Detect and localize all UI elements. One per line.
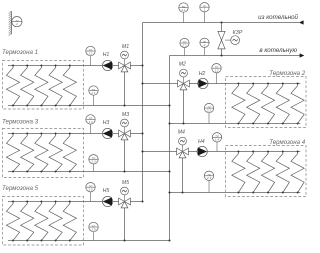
wire: sensor stem — [204, 12, 206, 23]
svg-text:Н1: Н1 — [103, 52, 110, 58]
wire: zone 2 return rail — [170, 123, 301, 125]
svg-text:2: 2 — [203, 43, 206, 47]
wire: sensor stem — [208, 113, 210, 124]
radiator 3.5 — [63, 133, 76, 173]
svg-text:М3: М3 — [122, 112, 129, 118]
radiator 4.3 — [261, 151, 274, 194]
svg-text:Термозона 3: Термозона 3 — [2, 118, 39, 125]
node: supply trunk junction zone 2 — [141, 82, 143, 84]
svg-text:Н3: Н3 — [103, 120, 110, 126]
radiator 5.3 — [35, 201, 48, 242]
valve М4 (3-way) — [177, 148, 189, 158]
valve М2 (3-way) — [178, 80, 190, 90]
radiator 1.1 — [6, 65, 19, 107]
wire: zone 4 supply from trunk — [143, 151, 177, 153]
sensor TE supply zone 5 — [86, 183, 95, 192]
wire: sensor stem — [90, 192, 92, 202]
svg-text:1.1: 1.1 — [88, 51, 93, 55]
node: return trunk junction zone 5 — [168, 239, 170, 241]
actuator М2 — [180, 69, 188, 77]
pump Н2 — [198, 78, 208, 88]
wire: zone 2 supply from trunk — [143, 83, 178, 85]
wire: zone 4 supply rail — [188, 151, 300, 153]
actuator М3 — [121, 119, 129, 127]
svg-text:Н4: Н4 — [198, 139, 205, 145]
svg-text:1.2: 1.2 — [214, 69, 219, 73]
enclosure Термозона 3 (dashed) — [3, 129, 84, 178]
wire: main supply line (из котельной) — [143, 22, 300, 24]
svg-text:2.5: 2.5 — [90, 227, 96, 231]
radiator 4.2 — [247, 151, 260, 194]
wire: actuator stem — [182, 145, 184, 152]
svg-text:2.2: 2.2 — [206, 109, 212, 113]
svg-text:2.4: 2.4 — [206, 176, 212, 180]
sensor TE supply zone 4 — [212, 133, 221, 142]
radiator 1.4 — [49, 65, 62, 107]
gauge PI on return — [200, 38, 209, 47]
actuator KZR — [231, 36, 240, 45]
radiator 1.5 — [63, 65, 76, 107]
radiator 1.3 — [35, 65, 48, 107]
radiator 5.5 — [63, 201, 76, 242]
svg-text:Н2: Н2 — [199, 71, 206, 77]
sensor TE return zone 4 — [204, 171, 213, 180]
sensor TE on return — [180, 38, 189, 47]
node: bypass junction М3 — [123, 170, 125, 172]
radiator 2.3 — [261, 83, 274, 125]
svg-text:Термозона 4: Термозона 4 — [269, 139, 306, 146]
node: return trunk junction zone 2 — [168, 122, 170, 124]
radiator 3.2 — [21, 133, 34, 173]
wire: sensor stem — [93, 95, 95, 105]
radiator 5.4 — [49, 201, 62, 242]
sensor TE supply zone 1 — [86, 46, 95, 55]
wire: sensor stem — [93, 232, 95, 241]
actuator М4 — [179, 137, 187, 145]
radiator 2.1 — [232, 83, 245, 125]
sensor TE return zone 3 — [89, 155, 98, 164]
gauge PI on supply — [200, 3, 209, 12]
svg-text:2.3: 2.3 — [90, 160, 96, 164]
wire: zone 1 supply rail to trunk — [130, 65, 142, 67]
svg-text:М5: М5 — [122, 180, 129, 186]
wire: KZR lower stem — [221, 49, 223, 56]
node: bypass junction М4 — [181, 191, 183, 193]
wire: actuator stem — [183, 77, 185, 84]
enclosure Термозона 5 (dashed) — [3, 197, 84, 246]
node: supply trunk junction zone 1 — [141, 64, 143, 66]
radiator 3.4 — [49, 133, 62, 173]
radiator 5.1 — [6, 201, 19, 242]
valve М5 (3-way) — [119, 198, 131, 208]
sensor TE1 outdoor temperature — [12, 17, 22, 27]
wire: sensor stem — [204, 47, 206, 55]
node: supply trunk junction zone 5 — [141, 200, 143, 202]
svg-text:М4: М4 — [178, 129, 185, 135]
wire: valve bypass М1 — [124, 72, 126, 106]
wire: supply trunk — [142, 23, 144, 203]
valve М1 (3-way) — [119, 62, 131, 72]
radiator 2.2 — [247, 83, 260, 125]
wire: sensor stem — [216, 142, 218, 152]
wire: valve bypass М3 — [124, 140, 126, 172]
valve KZR body — [218, 31, 225, 49]
wire: sensor stem — [216, 73, 218, 84]
radiator 4.4 — [276, 151, 289, 194]
svg-text:КЗР: КЗР — [233, 30, 243, 36]
radiator 5.2 — [21, 201, 34, 242]
wire: zone 3 return rail — [8, 171, 170, 173]
pump Н5 — [103, 196, 113, 206]
radiator 4.5 — [291, 151, 304, 194]
node: supply trunk junction zone 4 — [141, 150, 143, 152]
arrow: return outlet — [300, 53, 305, 57]
wire: sensor stem — [184, 48, 186, 56]
pump Н3 — [103, 128, 113, 138]
sensor TE supply zone 2 — [212, 63, 221, 72]
wire: zone 5 return rail — [8, 240, 170, 242]
radiator 4.1 — [232, 151, 245, 194]
wire: sensor stem — [183, 12, 185, 22]
sensor TE return zone 2 — [204, 103, 213, 112]
svg-text:1.4: 1.4 — [215, 138, 220, 142]
arrow: supply inlet — [299, 20, 304, 24]
wire: actuator stem — [124, 195, 126, 202]
svg-text:2.1: 2.1 — [90, 91, 96, 95]
node: bypass junction М1 — [123, 104, 125, 106]
svg-text:1.3: 1.3 — [88, 120, 93, 124]
radiator 2.4 — [276, 83, 289, 125]
node: KZR return tap — [220, 54, 222, 56]
wire: actuator stem — [124, 59, 126, 66]
wire: sensor stem — [90, 56, 92, 66]
wire: zone 5 supply rail — [8, 201, 119, 203]
wire: return trunk — [169, 56, 171, 241]
actuator М1 — [121, 51, 129, 59]
wire: valve bypass М5 — [124, 208, 126, 241]
sensor TE return zone 5 — [89, 222, 98, 231]
node: bypass junction М2 — [182, 122, 184, 124]
svg-text:1.5: 1.5 — [88, 188, 93, 192]
wire: sensor stem — [90, 124, 92, 133]
svg-text:1: 1 — [204, 8, 206, 12]
valve М3 (3-way) — [119, 130, 131, 140]
radiator 2.5 — [291, 83, 304, 125]
wire: sensor stem — [208, 181, 210, 193]
wire: zone 5 supply rail to trunk — [130, 201, 142, 203]
enclosure Термозона 1 (dashed) — [3, 61, 84, 110]
node: return trunk junction zone 3 — [168, 170, 170, 172]
node: return trunk junction zone 4 — [168, 191, 170, 193]
svg-text:2.2: 2.2 — [181, 43, 187, 47]
actuator М5 — [121, 187, 129, 195]
svg-text:Термозона 2: Термозона 2 — [269, 70, 306, 77]
svg-text:Термозона 5: Термозона 5 — [2, 185, 39, 192]
svg-text:Н5: Н5 — [103, 188, 110, 194]
enclosure Термозона 2 (dashed) — [226, 77, 307, 128]
svg-text:из котельной: из котельной — [258, 14, 298, 21]
svg-text:2.1: 2.1 — [180, 8, 186, 12]
svg-text:М2: М2 — [179, 61, 186, 67]
sensor TE supply zone 3 — [86, 115, 95, 124]
pump Н4 — [197, 146, 207, 156]
pump Н1 — [103, 60, 113, 70]
wire: zone 2 supply rail — [189, 83, 300, 85]
wire: main return line (в котельную) — [170, 55, 300, 57]
svg-text:М1: М1 — [122, 44, 129, 50]
wire: sensor stem — [93, 164, 95, 172]
wire: zone 1 return rail — [8, 105, 170, 107]
enclosure Термозона 4 (dashed) — [226, 146, 307, 197]
node: supply trunk junction zone 3 — [141, 132, 143, 134]
svg-text:в котельную: в котельную — [259, 47, 297, 54]
wire: zone 3 supply rail to trunk — [130, 133, 142, 135]
node: KZR supply tap — [220, 21, 222, 23]
wire: KZR upper stem — [221, 23, 223, 32]
radiator 3.1 — [6, 133, 19, 173]
wire: valve bypass М2 — [183, 90, 185, 124]
wire: KZR actuator link — [225, 39, 231, 41]
node: return trunk junction zone 1 — [168, 104, 170, 106]
radiator 1.2 — [21, 65, 34, 107]
wire: zone 3 supply rail — [8, 133, 119, 135]
wall hatching — [9, 11, 12, 36]
wire: valve bypass М4 — [182, 158, 184, 193]
sensor TE return zone 1 — [89, 86, 98, 95]
svg-text:Термозона 1: Термозона 1 — [2, 49, 38, 56]
wire: zone 4 return rail — [170, 192, 301, 194]
wire: actuator stem — [124, 127, 126, 134]
node: bypass junction М5 — [123, 239, 125, 241]
wire: zone 1 supply rail — [8, 65, 119, 67]
sensor TE on supply — [179, 3, 188, 12]
svg-text:1: 1 — [16, 22, 18, 26]
radiator 3.3 — [35, 133, 48, 173]
